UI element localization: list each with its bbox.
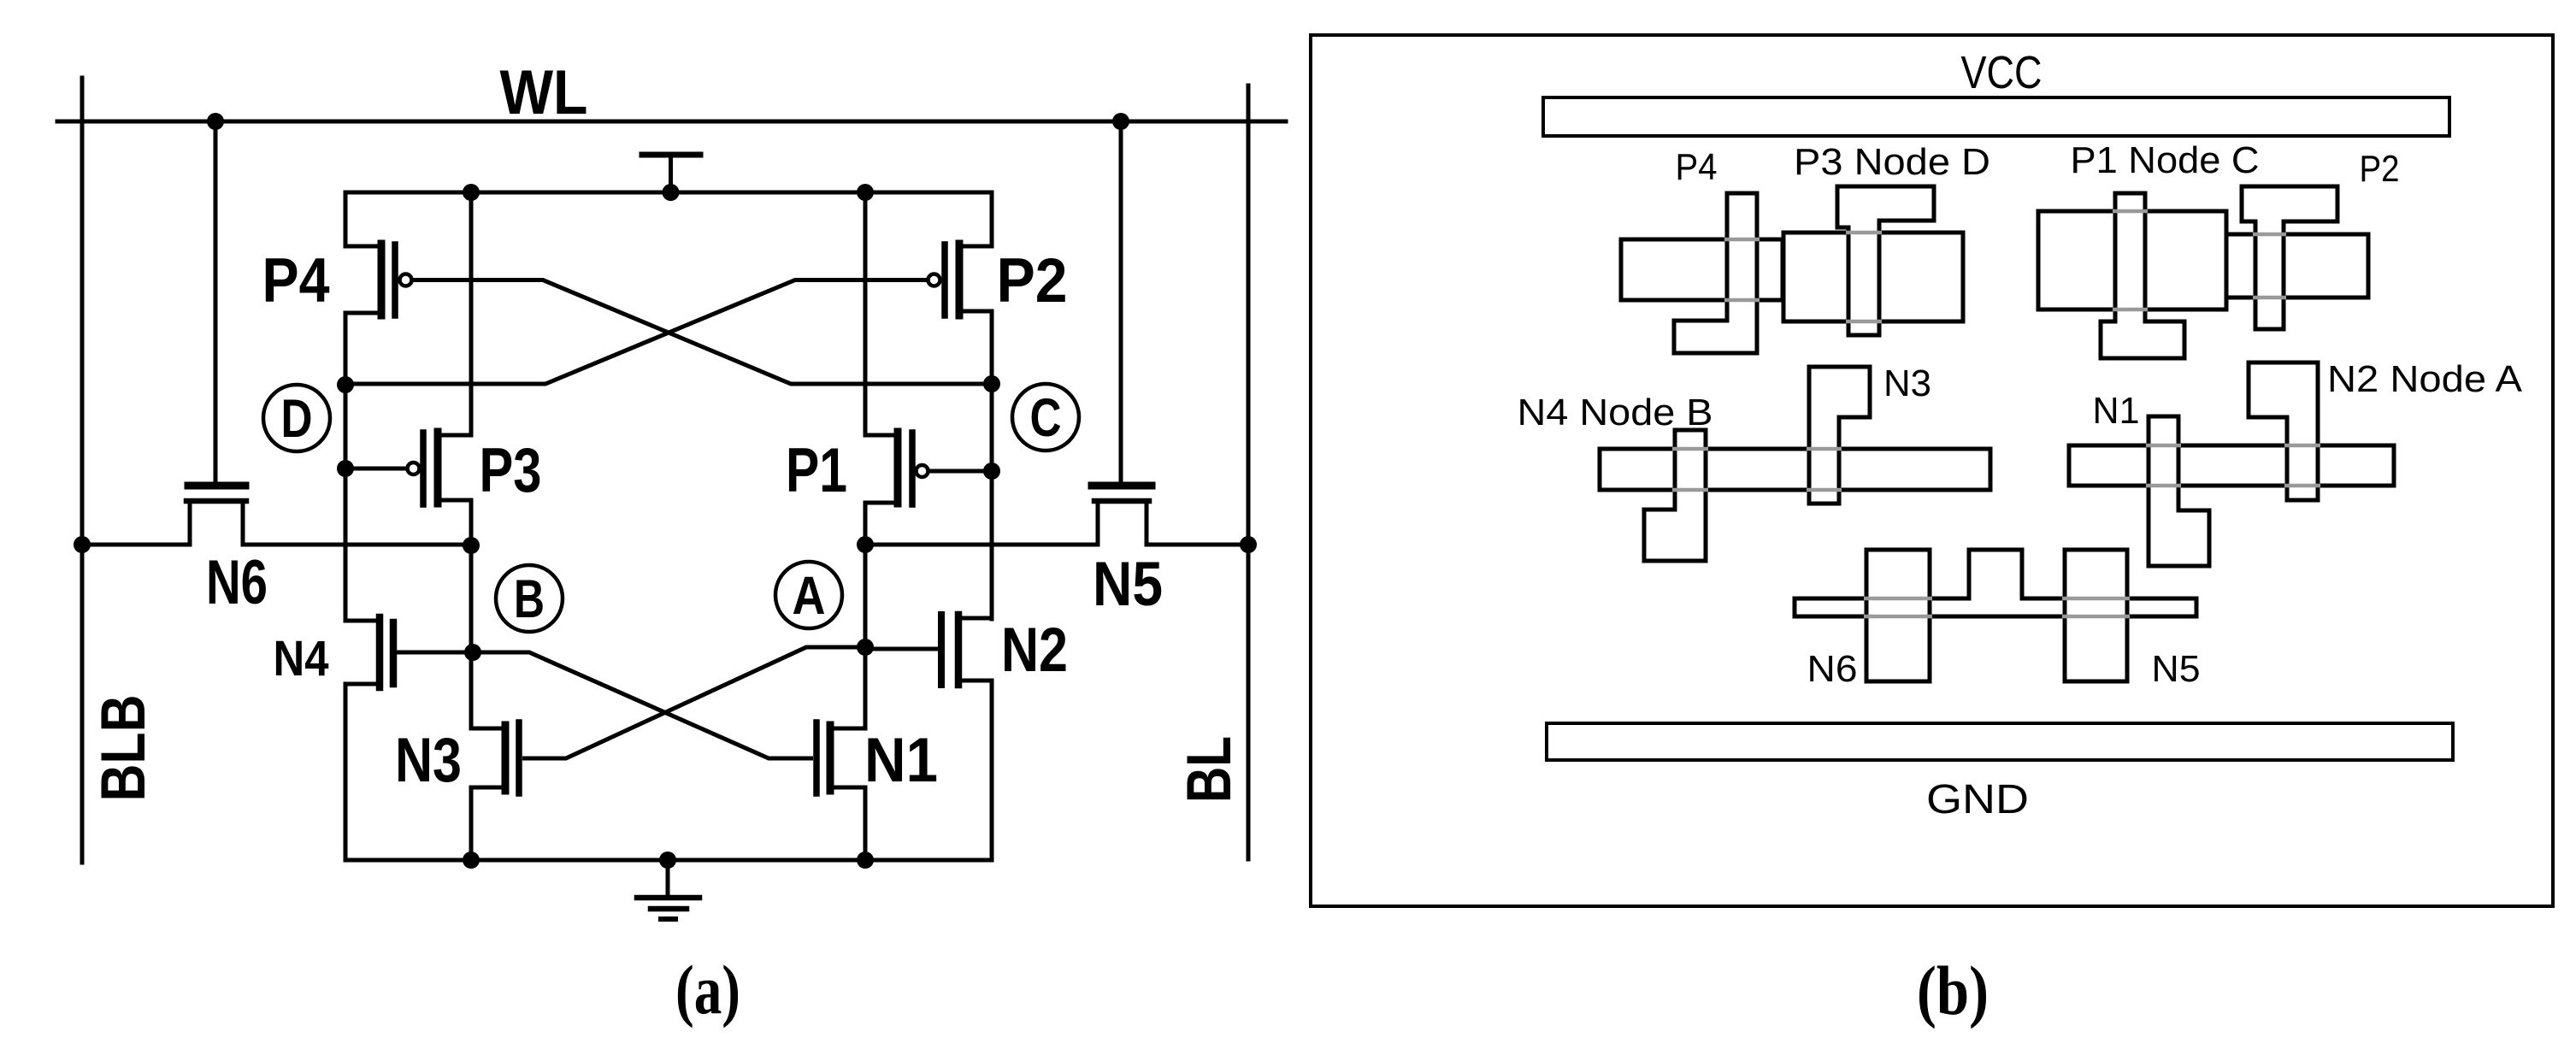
wire inner-right rail lower [864,787,868,860]
wire inner-right rail upper [864,192,868,435]
svg-text:(b): (b) [1917,952,1989,1029]
hidden diffusion edges under N3 [1807,449,1842,490]
node D junction [337,376,354,393]
node C circle label [1012,384,1079,451]
wire N6 to node D line [245,543,471,547]
wire node A cross-couple to N3 gate [522,647,865,758]
junction BL / N5 lead [1240,536,1257,553]
svg-text:N6: N6 [206,548,268,617]
node D circle label [263,385,330,451]
svg-text:N6: N6 [1807,648,1858,690]
svg-text:N5: N5 [1093,550,1163,619]
hidden diffusion edges under P1 [2113,211,2148,309]
svg-text:WL: WL [500,58,588,127]
hidden diffusion edges under N5 [2062,598,2130,616]
wire left cell edge upper [344,192,348,246]
wire right cell edge lower [990,681,994,860]
junction BLB / N6 lead [74,536,91,553]
N6-N5 diffusion bar with bump [1795,550,2196,616]
transistor P4 poly [1674,193,1757,353]
wire right cell edge middle [990,311,994,619]
wire inner-left rail lower [469,787,474,860]
wire right cell edge upper [990,192,994,246]
transistor N1 poly [2149,416,2209,566]
P4-P3 diffusion left [1621,239,1783,300]
svg-text:(a): (a) [675,951,740,1028]
transistor P3 [345,432,471,504]
svg-text:P2: P2 [997,246,1068,315]
svg-text:P1: P1 [786,436,847,505]
svg-text:N1: N1 [864,726,938,795]
svg-text:P1 Node C: P1 Node C [2071,139,2260,181]
transistor P1 [865,432,992,504]
P4-P3 diffusion right [1783,233,1963,321]
svg-text:N3: N3 [1883,362,1931,404]
svg-text:N3: N3 [395,726,462,795]
transistor N1 [816,722,865,793]
wire BL vertical [1247,85,1251,859]
hidden diffusion edges under N4 [1672,449,1708,490]
svg-text:N4: N4 [274,631,329,687]
junction top rail / inner-left rail [463,184,480,201]
junction bottom rail / ground stub [659,852,676,869]
wire BLB vertical [80,78,85,863]
transistor N2 [865,615,992,685]
node B junction [464,644,481,661]
transistor N4 poly [1644,430,1706,561]
transistor P3 poly [1837,186,1934,335]
VCC rail bar [1543,97,2449,136]
wire left cell edge middle [344,313,348,619]
wire N5 gate lead from WL [1119,121,1123,482]
svg-text:BLB: BLB [89,695,158,802]
N4-N3 diffusion bar [1600,449,1990,490]
wire P2 gate cross-couple to node D [345,280,928,385]
svg-text:P3: P3 [480,436,542,505]
hidden diffusion edges under N6 [1864,598,1932,616]
P1-P2 diffusion right [2226,234,2368,298]
wire N6 gate lead from WL [214,121,218,482]
node C junction [983,375,1000,392]
svg-text:N5: N5 [2152,648,2201,690]
wire inner-left rail upper [469,192,474,435]
svg-text:P4: P4 [1676,146,1718,188]
transistor P2 poly [2242,186,2337,329]
hidden diffusion edges under P4 [1724,239,1760,300]
transistor N6 [186,486,246,545]
junction WL / N5 gate [1112,113,1129,130]
ground symbol [637,860,699,919]
wire node B cross-couple to N1 gate [473,652,813,758]
wire N5 to BL line [1147,543,1248,547]
transistor N2 poly [2249,362,2318,500]
transistor N6 poly [1866,550,1930,681]
node B circle label [496,565,563,632]
svg-text:GND: GND [1926,777,2029,822]
N1-N2 diffusion bar [2069,445,2394,486]
transistor N3 [471,722,519,793]
junction N6 lead / inner-left rail [463,537,480,554]
transistor P1 poly [2101,193,2184,358]
junction top rail / inner-right rail [857,184,874,201]
junction P1 gate / right edge [983,463,1000,480]
junction N5 lead / inner-right rail [857,536,874,553]
P1-P2 diffusion left [2038,211,2226,309]
svg-text:P2: P2 [2360,148,2400,190]
frame border [1311,35,2553,906]
junction bottom rail / inner-right rail [857,852,874,869]
power VCC stub symbol [642,155,700,192]
wire P4 gate cross-couple to node C [412,280,991,385]
GND rail bar [1547,723,2453,760]
junction P3 gate / left edge [337,460,354,477]
wire left cell edge lower [344,684,348,860]
transistor N3 poly [1809,367,1870,504]
svg-text:BL: BL [1175,736,1244,803]
node A circle label [775,562,842,628]
hidden diffusion edges under P3 [1846,233,1882,321]
svg-text:N4 Node B: N4 Node B [1518,392,1713,433]
hidden diffusion edges under P2 [2253,234,2286,298]
junction top rail / VCC stub [663,184,680,201]
wire inner-left rail middle [469,500,474,728]
node A junction [857,639,874,656]
svg-text:P3 Node D: P3 Node D [1794,141,1990,183]
svg-text:VCC: VCC [1961,47,2043,98]
svg-text:A: A [793,566,826,626]
svg-text:N1: N1 [2093,390,2140,432]
wire cell bottom rail [345,858,992,863]
wire node D to BLB side line [82,543,190,547]
hidden diffusion edges under N1 [2146,445,2181,486]
svg-text:D: D [281,389,313,449]
svg-text:N2 Node A: N2 Node A [2327,358,2523,400]
hidden diffusion edges under N2 [2284,445,2320,486]
transistor N5 poly [2065,550,2127,681]
transistor N5 [1092,486,1152,545]
wire WL horizontal [57,120,1286,124]
svg-text:P4: P4 [262,246,330,315]
wire node C side line left [865,543,1098,547]
transistor P2 [928,244,993,315]
transistor N4 [345,617,473,687]
wire cell top rail [345,191,991,195]
wire inner-right rail middle [864,503,868,728]
transistor P4 [345,244,412,315]
svg-text:B: B [514,569,545,629]
svg-text:C: C [1030,388,1062,448]
junction WL / N6 gate [207,113,224,130]
junction bottom rail / inner-left rail [463,852,480,869]
svg-text:N2: N2 [1001,616,1068,685]
